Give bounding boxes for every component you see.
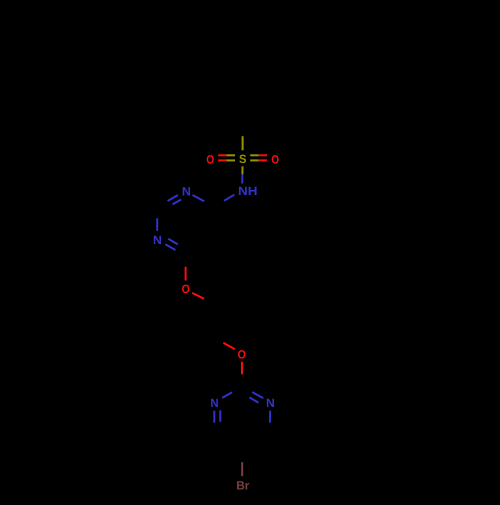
bond N1=C6 main half — [165, 244, 175, 250]
bond N(H)-C4 half — [224, 195, 234, 201]
bond O1-C7 half — [192, 293, 204, 299]
svg-text:Br: Br — [236, 478, 250, 492]
svg-text:N: N — [266, 396, 275, 410]
bond C2'=N3' inner half — [249, 397, 258, 402]
bond N1'=C6' inner half — [219, 410, 221, 422]
svg-text:S: S — [239, 152, 247, 166]
bond S=O left, top line — [218, 154, 226, 156]
bond O2-C2' half — [241, 362, 243, 375]
svg-text:O: O — [206, 152, 214, 166]
svg-text:N: N — [182, 184, 191, 198]
bond N3'-C4' half — [269, 411, 271, 423]
bond C(phenyl)-S upper half (S colored) — [242, 136, 244, 150]
svg-text:O: O — [238, 347, 246, 361]
bond C5'-Br half — [241, 462, 243, 476]
bond C8-O2 half — [223, 343, 235, 349]
bond C2=N3 main half — [168, 195, 178, 201]
bond C6-O1 half — [185, 267, 187, 281]
svg-text:O: O — [271, 152, 279, 166]
svg-text:N: N — [153, 233, 162, 247]
bond N3-C4 half — [193, 195, 205, 201]
bond C2'=N3' main half — [252, 392, 263, 398]
bond S-N — [241, 166, 243, 174]
bond N1'=C6' main half — [213, 411, 215, 423]
bond N1-C2 half — [156, 218, 158, 231]
svg-text:NH: NH — [238, 184, 257, 198]
bond C2=N3 inner half — [172, 200, 181, 205]
svg-text:O: O — [182, 282, 190, 296]
bond S=O left, bottom line — [218, 159, 226, 161]
bond C2'-N1' half — [222, 392, 232, 398]
bond S=O right, top line — [250, 154, 259, 156]
bond S=O right, bottom line — [250, 159, 259, 161]
bond N1=C6 inner half — [168, 239, 178, 245]
svg-text:N: N — [210, 396, 218, 410]
